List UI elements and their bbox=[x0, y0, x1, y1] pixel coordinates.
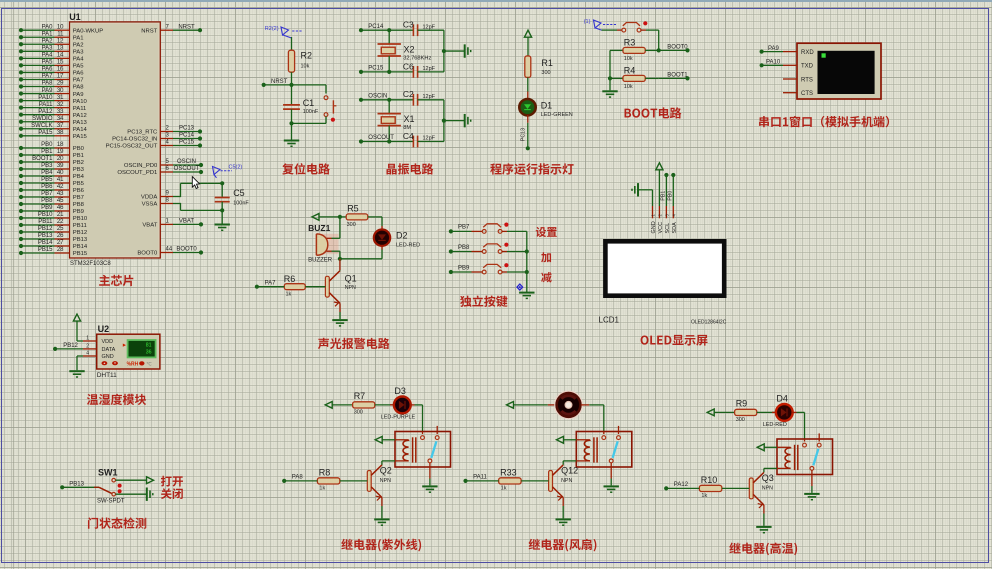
svg-text:PB9: PB9 bbox=[73, 209, 84, 215]
wire net PA7 to R6 bbox=[255, 281, 285, 289]
capacitor C1 100nF bbox=[283, 85, 319, 124]
svg-text:300: 300 bbox=[347, 222, 356, 228]
mouse cursor bbox=[192, 177, 199, 189]
wire net PB7 bbox=[449, 225, 483, 234]
wire net PA8 to R8 bbox=[282, 475, 317, 483]
svg-text:1: 1 bbox=[86, 335, 89, 341]
label crystal circuit 晶振电路 bbox=[386, 163, 433, 174]
wire net PB7 to U1 pin 43 bbox=[19, 191, 84, 201]
svg-text:34: 34 bbox=[57, 116, 64, 122]
svg-text:NPN: NPN bbox=[561, 478, 572, 484]
wire net PA9 to RXD bbox=[760, 46, 784, 54]
wire net PB4 to U1 pin 40 bbox=[19, 170, 85, 180]
svg-text:PB6: PB6 bbox=[41, 184, 53, 190]
svg-text:32: 32 bbox=[57, 102, 64, 108]
wire net PB5 to U1 pin 41 bbox=[19, 177, 85, 187]
svg-text:PA8: PA8 bbox=[292, 475, 304, 481]
svg-text:PC13_RTC: PC13_RTC bbox=[127, 130, 158, 136]
svg-text:17: 17 bbox=[57, 74, 64, 80]
svg-text:PA7: PA7 bbox=[73, 78, 84, 84]
resistor R3 10k bbox=[610, 38, 661, 62]
svg-text:LED-PURPLE: LED-PURPLE bbox=[381, 415, 416, 421]
capacitor C4 12pF bbox=[389, 131, 444, 148]
svg-text:16: 16 bbox=[57, 67, 64, 73]
label 打开 bbox=[161, 476, 183, 487]
LED D2 LED-RED bbox=[374, 217, 420, 259]
svg-text:X1: X1 bbox=[404, 114, 415, 124]
svg-text:15: 15 bbox=[57, 60, 64, 66]
temperature humidity module U2 DHT11 bbox=[83, 324, 160, 379]
svg-text:CTS: CTS bbox=[801, 91, 813, 97]
ground of X2 circuit bbox=[444, 44, 471, 57]
svg-text:BUZ1: BUZ1 bbox=[308, 223, 330, 233]
svg-text:STM32F103C8: STM32F103C8 bbox=[70, 261, 111, 267]
wire net PA10 to U1 pin 31 bbox=[19, 95, 88, 105]
svg-text:VBAT: VBAT bbox=[142, 223, 157, 229]
wire motor to relay contact bbox=[581, 405, 604, 432]
wire net PB6 to U1 pin 42 bbox=[19, 184, 85, 194]
svg-text:R10: R10 bbox=[701, 475, 718, 485]
svg-text:26: 26 bbox=[57, 233, 64, 239]
wire net PB10 to U1 pin 21 bbox=[19, 212, 88, 222]
svg-text:VBAT: VBAT bbox=[179, 219, 195, 225]
svg-text:R4: R4 bbox=[624, 66, 636, 76]
relay for 继电器(高温) bbox=[777, 433, 833, 474]
wire buzzer top to R5 junction bbox=[332, 215, 343, 239]
svg-text:RXD: RXD bbox=[801, 50, 814, 56]
svg-text:C5: C5 bbox=[233, 188, 245, 198]
svg-text:X2: X2 bbox=[404, 44, 415, 54]
svg-text:PB9: PB9 bbox=[41, 205, 53, 211]
ground relay pole 继电器(高温) bbox=[804, 470, 819, 499]
svg-text:D3: D3 bbox=[394, 386, 406, 396]
net flag (1) BOOT bbox=[584, 19, 616, 30]
svg-text:SWDIO: SWDIO bbox=[32, 116, 53, 122]
label 继电器(紫外线) bbox=[341, 539, 421, 552]
label 关闭 bbox=[161, 488, 183, 499]
wire U1 pin 8 VSSA to C5 bbox=[142, 198, 223, 211]
ground OLED GND sideways bbox=[632, 183, 653, 206]
svg-text:D2: D2 bbox=[396, 230, 408, 240]
virtual terminal 串口1 component bbox=[783, 43, 881, 99]
svg-text:PA8: PA8 bbox=[73, 85, 84, 91]
transistor Q1 NPN bbox=[325, 259, 356, 307]
wire net PA12 to R10 bbox=[664, 482, 699, 490]
svg-text:46: 46 bbox=[57, 205, 64, 211]
resistor R6 1k bbox=[284, 274, 326, 297]
svg-text:PB0: PB0 bbox=[41, 142, 53, 148]
svg-text:PA10: PA10 bbox=[766, 60, 781, 66]
svg-text:4: 4 bbox=[86, 350, 89, 356]
svg-text:PC14: PC14 bbox=[368, 24, 384, 30]
svg-text:100nF: 100nF bbox=[233, 200, 249, 206]
svg-text:PB8: PB8 bbox=[41, 198, 53, 204]
svg-text:PB12: PB12 bbox=[38, 226, 53, 232]
label alarm circuit 声光报警电路 bbox=[318, 338, 390, 349]
wire net PA11 to U1 pin 32 bbox=[19, 102, 86, 112]
power symbol left of R7 bbox=[325, 402, 352, 409]
svg-text:SCL: SCL bbox=[665, 223, 671, 234]
svg-text:42: 42 bbox=[57, 184, 64, 190]
capacitor C6 12pF bbox=[389, 61, 444, 78]
wire right rail of keys bbox=[525, 231, 529, 292]
wire net PA2 to U1 pin 12 bbox=[19, 38, 84, 48]
svg-text:PA9: PA9 bbox=[768, 46, 780, 52]
svg-text:C6: C6 bbox=[403, 61, 414, 71]
svg-text:PA7: PA7 bbox=[42, 74, 54, 80]
svg-text:DHT11: DHT11 bbox=[97, 372, 117, 379]
wire net PA1 to U1 pin 11 bbox=[19, 31, 84, 41]
label program indicator 程序运行指示灯 bbox=[490, 163, 573, 175]
wire net PA6 to U1 pin 16 bbox=[19, 67, 84, 77]
wire net PA7 to U1 pin 17 bbox=[19, 74, 84, 84]
svg-text:PA9: PA9 bbox=[42, 88, 54, 94]
resistor R8 1k bbox=[317, 467, 367, 491]
svg-text:PB6: PB6 bbox=[73, 188, 85, 194]
svg-text:SW1: SW1 bbox=[98, 467, 118, 477]
power symbol above R1 bbox=[524, 30, 531, 56]
transistor Q2 NPN bbox=[367, 465, 392, 501]
svg-text:PA5: PA5 bbox=[42, 60, 54, 66]
svg-text:PC15-OSC32_OUT: PC15-OSC32_OUT bbox=[106, 144, 158, 150]
push button PB8 bbox=[482, 243, 526, 254]
svg-text:PC14-OSC32_IN: PC14-OSC32_IN bbox=[112, 137, 157, 143]
ground reset circuit bbox=[284, 121, 299, 146]
svg-text:PB11: PB11 bbox=[73, 223, 87, 229]
wire U1 pin 9 VDDA to C5 bbox=[141, 183, 222, 200]
wire left rail BOOT and ground bbox=[602, 50, 617, 97]
svg-text:10k: 10k bbox=[301, 64, 310, 70]
svg-text:Q2: Q2 bbox=[380, 466, 392, 476]
svg-text:2: 2 bbox=[658, 214, 663, 217]
ground of keys bbox=[519, 292, 534, 294]
label key 设置 bbox=[536, 227, 557, 237]
wire relay coil bottom to Q3 collector bbox=[764, 468, 791, 472]
svg-text:R1: R1 bbox=[541, 58, 553, 68]
svg-text:1k: 1k bbox=[319, 486, 325, 492]
label module 温湿度模块 bbox=[87, 394, 146, 405]
svg-text:19: 19 bbox=[57, 149, 64, 155]
svg-text:18: 18 bbox=[57, 142, 64, 148]
ground of X1 circuit bbox=[444, 114, 471, 127]
OLED display LCD1 OLED12864I2C bbox=[599, 206, 727, 325]
svg-text:PB10: PB10 bbox=[73, 216, 88, 222]
svg-text:SDA: SDA bbox=[672, 222, 678, 234]
ground closed 关闭 bbox=[116, 488, 153, 501]
svg-text:PB0: PB0 bbox=[668, 191, 674, 201]
svg-text:NPN: NPN bbox=[762, 486, 773, 492]
wire net PB8 to U1 pin 45 bbox=[19, 198, 85, 208]
svg-text:12pF: 12pF bbox=[423, 94, 436, 100]
svg-text:12: 12 bbox=[57, 38, 64, 44]
svg-text:12pF: 12pF bbox=[423, 136, 436, 142]
relay for 继电器(紫外线) bbox=[395, 426, 451, 467]
svg-text:Q3: Q3 bbox=[762, 473, 774, 483]
svg-text:LED-RED: LED-RED bbox=[763, 422, 787, 428]
svg-text:11: 11 bbox=[57, 31, 64, 37]
svg-text:PB0: PB0 bbox=[73, 146, 85, 152]
svg-text:10k: 10k bbox=[624, 84, 633, 90]
relay for 继电器(风扇) bbox=[576, 426, 632, 467]
push button reset bbox=[292, 85, 337, 124]
svg-text:C2: C2 bbox=[403, 89, 414, 99]
resistor R10 1k bbox=[699, 475, 749, 499]
svg-text:1k: 1k bbox=[286, 291, 292, 297]
power symbol left of R5 bbox=[312, 214, 346, 221]
wire net PB0 to U1 pin 18 bbox=[19, 142, 85, 152]
label 继电器(风扇) bbox=[529, 539, 597, 552]
wire net PB11 to U1 pin 22 bbox=[19, 219, 87, 229]
net flag C5(2) at OSCOUT bbox=[213, 165, 243, 178]
wire net PC13 from U1 pin 2 bbox=[127, 126, 202, 136]
wire net PA4 to U1 pin 14 bbox=[19, 53, 84, 63]
svg-text:RTS: RTS bbox=[801, 77, 813, 83]
LED D1 LED-GREEN bbox=[519, 92, 573, 118]
svg-text:PA2: PA2 bbox=[42, 38, 54, 44]
svg-text:PB12: PB12 bbox=[63, 343, 78, 349]
svg-text:12pF: 12pF bbox=[423, 24, 436, 30]
svg-text:TXD: TXD bbox=[801, 64, 814, 70]
blue origin marker bbox=[517, 284, 523, 290]
svg-text:BOOT0: BOOT0 bbox=[667, 44, 688, 50]
svg-text:DATA: DATA bbox=[102, 347, 116, 353]
svg-text:LED-GREEN: LED-GREEN bbox=[541, 112, 573, 118]
svg-text:PA12: PA12 bbox=[73, 113, 87, 119]
wire net PB9 to U1 pin 46 bbox=[19, 205, 84, 215]
power symbol left of motor bbox=[507, 402, 557, 409]
capacitor C2 12pF bbox=[389, 89, 444, 106]
wire net PA8 to U1 pin 29 bbox=[19, 81, 84, 91]
svg-text:SWCLK: SWCLK bbox=[31, 123, 52, 129]
svg-text:PB1: PB1 bbox=[73, 153, 84, 159]
svg-text:OSCOUT: OSCOUT bbox=[174, 166, 200, 172]
ground below Q2 bbox=[374, 498, 389, 526]
ground relay pole 继电器(紫外线) bbox=[422, 463, 437, 492]
svg-text:C5(2): C5(2) bbox=[229, 165, 243, 171]
wire net PA9 to U1 pin 30 bbox=[19, 88, 84, 98]
svg-text:PB15: PB15 bbox=[38, 247, 53, 253]
svg-text:PA11: PA11 bbox=[73, 106, 87, 112]
svg-text:PA10: PA10 bbox=[38, 95, 53, 101]
svg-text:41: 41 bbox=[57, 177, 64, 183]
svg-text:PA2: PA2 bbox=[73, 42, 84, 48]
svg-text:PA0-WKUP: PA0-WKUP bbox=[73, 28, 103, 34]
svg-text:81: 81 bbox=[146, 343, 152, 349]
wire net OSCOUT from U1 pin 6 bbox=[117, 166, 203, 176]
svg-text:PB14: PB14 bbox=[73, 244, 88, 250]
svg-text:PB9: PB9 bbox=[458, 265, 470, 271]
wire net PB8 bbox=[449, 245, 483, 254]
svg-text:BOOT1: BOOT1 bbox=[667, 72, 688, 78]
wire net PB15 to U1 pin 28 bbox=[19, 247, 88, 257]
ground relay pole 继电器(风扇) bbox=[604, 463, 619, 492]
label reset circuit 复位电路 bbox=[282, 163, 330, 174]
svg-text:PA9: PA9 bbox=[73, 92, 84, 98]
wire net PC14 from U1 pin 3 bbox=[112, 133, 202, 143]
svg-text:PB8: PB8 bbox=[458, 245, 470, 251]
svg-text:D4: D4 bbox=[776, 394, 788, 404]
svg-text:2: 2 bbox=[166, 126, 170, 132]
label BOOT circuit BOOT电路 bbox=[625, 107, 682, 118]
label key 加 bbox=[541, 252, 551, 262]
svg-text:PC13: PC13 bbox=[179, 126, 195, 132]
label 继电器(高温) bbox=[729, 543, 797, 556]
svg-text:PA11: PA11 bbox=[39, 102, 53, 108]
label serial window 串口1窗口（模拟手机端） bbox=[759, 116, 889, 128]
svg-text:PB7: PB7 bbox=[73, 195, 84, 201]
LED D3 LED-PURPLE bbox=[381, 386, 416, 421]
label key 减 bbox=[541, 272, 552, 282]
svg-text:PA6: PA6 bbox=[73, 71, 84, 77]
svg-text:SW-SPDT: SW-SPDT bbox=[97, 499, 125, 505]
wire net NRST from U1 pin 7 bbox=[141, 24, 202, 34]
svg-text:R7: R7 bbox=[354, 391, 366, 401]
svg-text:13: 13 bbox=[57, 46, 64, 52]
svg-text:PB7: PB7 bbox=[41, 191, 53, 197]
ground below Q3 bbox=[756, 505, 771, 533]
svg-text:PB5: PB5 bbox=[41, 177, 53, 183]
svg-text:PA0: PA0 bbox=[42, 24, 54, 30]
svg-text:PA15: PA15 bbox=[38, 130, 53, 136]
svg-text:OSCIN: OSCIN bbox=[177, 159, 196, 165]
svg-text:36: 36 bbox=[146, 350, 152, 356]
wire net PC15 bbox=[359, 66, 391, 75]
svg-text:Q12: Q12 bbox=[561, 466, 578, 476]
svg-text:28: 28 bbox=[57, 247, 64, 253]
wire buzzer bottom / D2 to Q1 collector node bbox=[332, 251, 383, 261]
svg-text:NPN: NPN bbox=[345, 285, 356, 291]
svg-text:100nF: 100nF bbox=[303, 109, 319, 115]
svg-text:29: 29 bbox=[57, 81, 64, 87]
svg-text:3: 3 bbox=[166, 133, 170, 139]
svg-text:PA14: PA14 bbox=[73, 127, 88, 133]
crystal X1 8M bbox=[378, 100, 415, 142]
resistor R1 300 bbox=[525, 56, 553, 92]
svg-text:%RH: %RH bbox=[127, 361, 139, 367]
wire right rail of X2 bbox=[442, 30, 446, 72]
resistor R7 300 bbox=[353, 391, 394, 415]
buzzer BUZ1 with selection highlight bbox=[308, 223, 338, 263]
wire D4 to relay contact bbox=[797, 412, 805, 439]
capacitor C5 100nF bbox=[215, 181, 250, 212]
svg-text:OSCIN: OSCIN bbox=[368, 93, 387, 99]
resistor R9 300 bbox=[735, 399, 776, 423]
svg-text:PA10: PA10 bbox=[73, 99, 88, 105]
svg-text:5: 5 bbox=[166, 159, 170, 165]
svg-text:PB12: PB12 bbox=[73, 230, 87, 236]
svg-text:D1: D1 bbox=[541, 101, 553, 111]
wire net PA0 to U1 pin 10 bbox=[19, 24, 103, 34]
svg-text:LCD1: LCD1 bbox=[599, 315, 620, 324]
svg-text:10k: 10k bbox=[624, 56, 633, 62]
svg-text:33: 33 bbox=[57, 109, 64, 115]
svg-text:U2: U2 bbox=[98, 324, 110, 334]
capacitor C3 12pF bbox=[389, 20, 444, 36]
switch SW1 SW-SPDT bbox=[94, 467, 125, 504]
power symbol left of R9 bbox=[707, 409, 734, 416]
wire net PA12 to U1 pin 33 bbox=[19, 109, 87, 119]
ground below Q1 bbox=[332, 303, 347, 326]
op-amp U1 main chip STM32F103C8 body bbox=[69, 12, 160, 267]
svg-text:27: 27 bbox=[57, 240, 64, 246]
svg-text:45: 45 bbox=[57, 198, 64, 204]
wire net PB1 to SCL bbox=[661, 173, 669, 206]
svg-text:PB2: PB2 bbox=[73, 160, 84, 166]
crystal X2 32.768KHz bbox=[378, 30, 432, 72]
svg-text:C1: C1 bbox=[303, 98, 315, 108]
svg-text:25: 25 bbox=[57, 226, 64, 232]
net flag R2(2) bbox=[265, 26, 303, 38]
svg-text:7: 7 bbox=[166, 24, 170, 30]
wire net PB13 to SW1 bbox=[60, 482, 99, 490]
svg-text:PB14: PB14 bbox=[38, 240, 53, 246]
wire net PA10 to TXD bbox=[760, 60, 784, 68]
power symbol relay coil 继电器(紫外线) bbox=[375, 436, 395, 443]
svg-text:PA6: PA6 bbox=[42, 67, 54, 73]
svg-text:PB8: PB8 bbox=[73, 202, 85, 208]
wire net PB13 to U1 pin 26 bbox=[19, 233, 88, 243]
svg-text:20: 20 bbox=[57, 156, 64, 162]
svg-text:37: 37 bbox=[57, 123, 64, 129]
svg-text:PB1: PB1 bbox=[661, 191, 667, 201]
svg-text:R33: R33 bbox=[500, 467, 517, 477]
svg-text:C3: C3 bbox=[403, 20, 414, 30]
label OLED screen OLED显示屏 bbox=[641, 335, 708, 346]
svg-text:PB3: PB3 bbox=[41, 163, 53, 169]
svg-text:PB13: PB13 bbox=[73, 237, 88, 243]
wire net PB12 to U1 pin 25 bbox=[19, 226, 87, 236]
svg-text:30: 30 bbox=[57, 88, 64, 94]
push button PB7 bbox=[482, 223, 526, 234]
LED D4 LED-RED bbox=[763, 394, 797, 429]
label door detect 门状态检测 bbox=[88, 517, 146, 528]
svg-text:PA8: PA8 bbox=[42, 81, 54, 87]
svg-text:PB11: PB11 bbox=[38, 219, 53, 225]
svg-text:PB4: PB4 bbox=[73, 174, 85, 180]
svg-text:PA15: PA15 bbox=[73, 134, 88, 140]
svg-text:PA1: PA1 bbox=[42, 31, 54, 37]
svg-text:OSCIN_PD0: OSCIN_PD0 bbox=[124, 163, 158, 169]
wire net BOOT1 to U1 pin 20 bbox=[19, 156, 84, 166]
push button PB9 bbox=[482, 263, 526, 274]
label main chip 主芯片 bbox=[99, 275, 133, 286]
wire right rail of X1 bbox=[442, 100, 446, 142]
svg-text:GND: GND bbox=[651, 221, 657, 233]
wire D3 to relay contact bbox=[415, 405, 423, 432]
svg-text:4: 4 bbox=[166, 140, 170, 146]
svg-text:VDDA: VDDA bbox=[141, 195, 157, 201]
wire relay coil bottom to Q12 collector bbox=[563, 461, 590, 465]
wire net OSCIN bbox=[359, 93, 391, 102]
svg-text:PA12: PA12 bbox=[674, 482, 689, 488]
svg-text:VCC: VCC bbox=[658, 222, 664, 234]
svg-text:PA4: PA4 bbox=[42, 53, 54, 59]
svg-text:8: 8 bbox=[166, 198, 170, 204]
svg-text:R3: R3 bbox=[624, 38, 636, 48]
svg-text:PB7: PB7 bbox=[458, 225, 470, 231]
svg-text:22: 22 bbox=[57, 219, 64, 225]
wire net PB12 to DATA bbox=[53, 343, 83, 351]
svg-text:40: 40 bbox=[57, 170, 64, 176]
svg-text:1k: 1k bbox=[701, 493, 707, 499]
svg-text:300: 300 bbox=[736, 417, 745, 423]
resistor R5 300 bbox=[346, 204, 382, 228]
svg-text:BOOT0: BOOT0 bbox=[176, 247, 197, 253]
svg-text:R2: R2 bbox=[301, 51, 313, 61]
svg-text:2: 2 bbox=[86, 343, 89, 349]
svg-text:BUZZER: BUZZER bbox=[308, 258, 333, 264]
svg-text:PA5: PA5 bbox=[73, 64, 84, 70]
